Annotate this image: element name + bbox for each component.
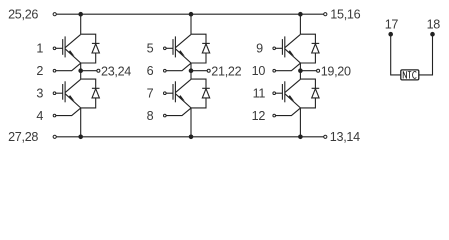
svg-text:10: 10 <box>252 64 266 78</box>
svg-text:6: 6 <box>147 64 154 78</box>
svg-text:12: 12 <box>252 109 266 123</box>
svg-text:1: 1 <box>36 42 43 56</box>
svg-text:8: 8 <box>147 109 154 123</box>
svg-text:27,28: 27,28 <box>8 130 38 144</box>
svg-text:19,20: 19,20 <box>321 64 351 78</box>
svg-text:5: 5 <box>147 42 154 56</box>
svg-text:18: 18 <box>427 18 441 32</box>
svg-text:2: 2 <box>36 64 43 78</box>
svg-text:25,26: 25,26 <box>8 8 38 22</box>
svg-text:4: 4 <box>36 109 43 123</box>
svg-text:15,16: 15,16 <box>330 8 360 22</box>
svg-text:9: 9 <box>256 42 263 56</box>
svg-text:7: 7 <box>147 86 154 100</box>
svg-text:13,14: 13,14 <box>330 130 360 144</box>
svg-text:3: 3 <box>36 86 43 100</box>
svg-text:17: 17 <box>385 18 399 32</box>
svg-text:21,22: 21,22 <box>211 64 241 78</box>
svg-text:11: 11 <box>253 86 266 100</box>
svg-text:23,24: 23,24 <box>101 64 131 78</box>
